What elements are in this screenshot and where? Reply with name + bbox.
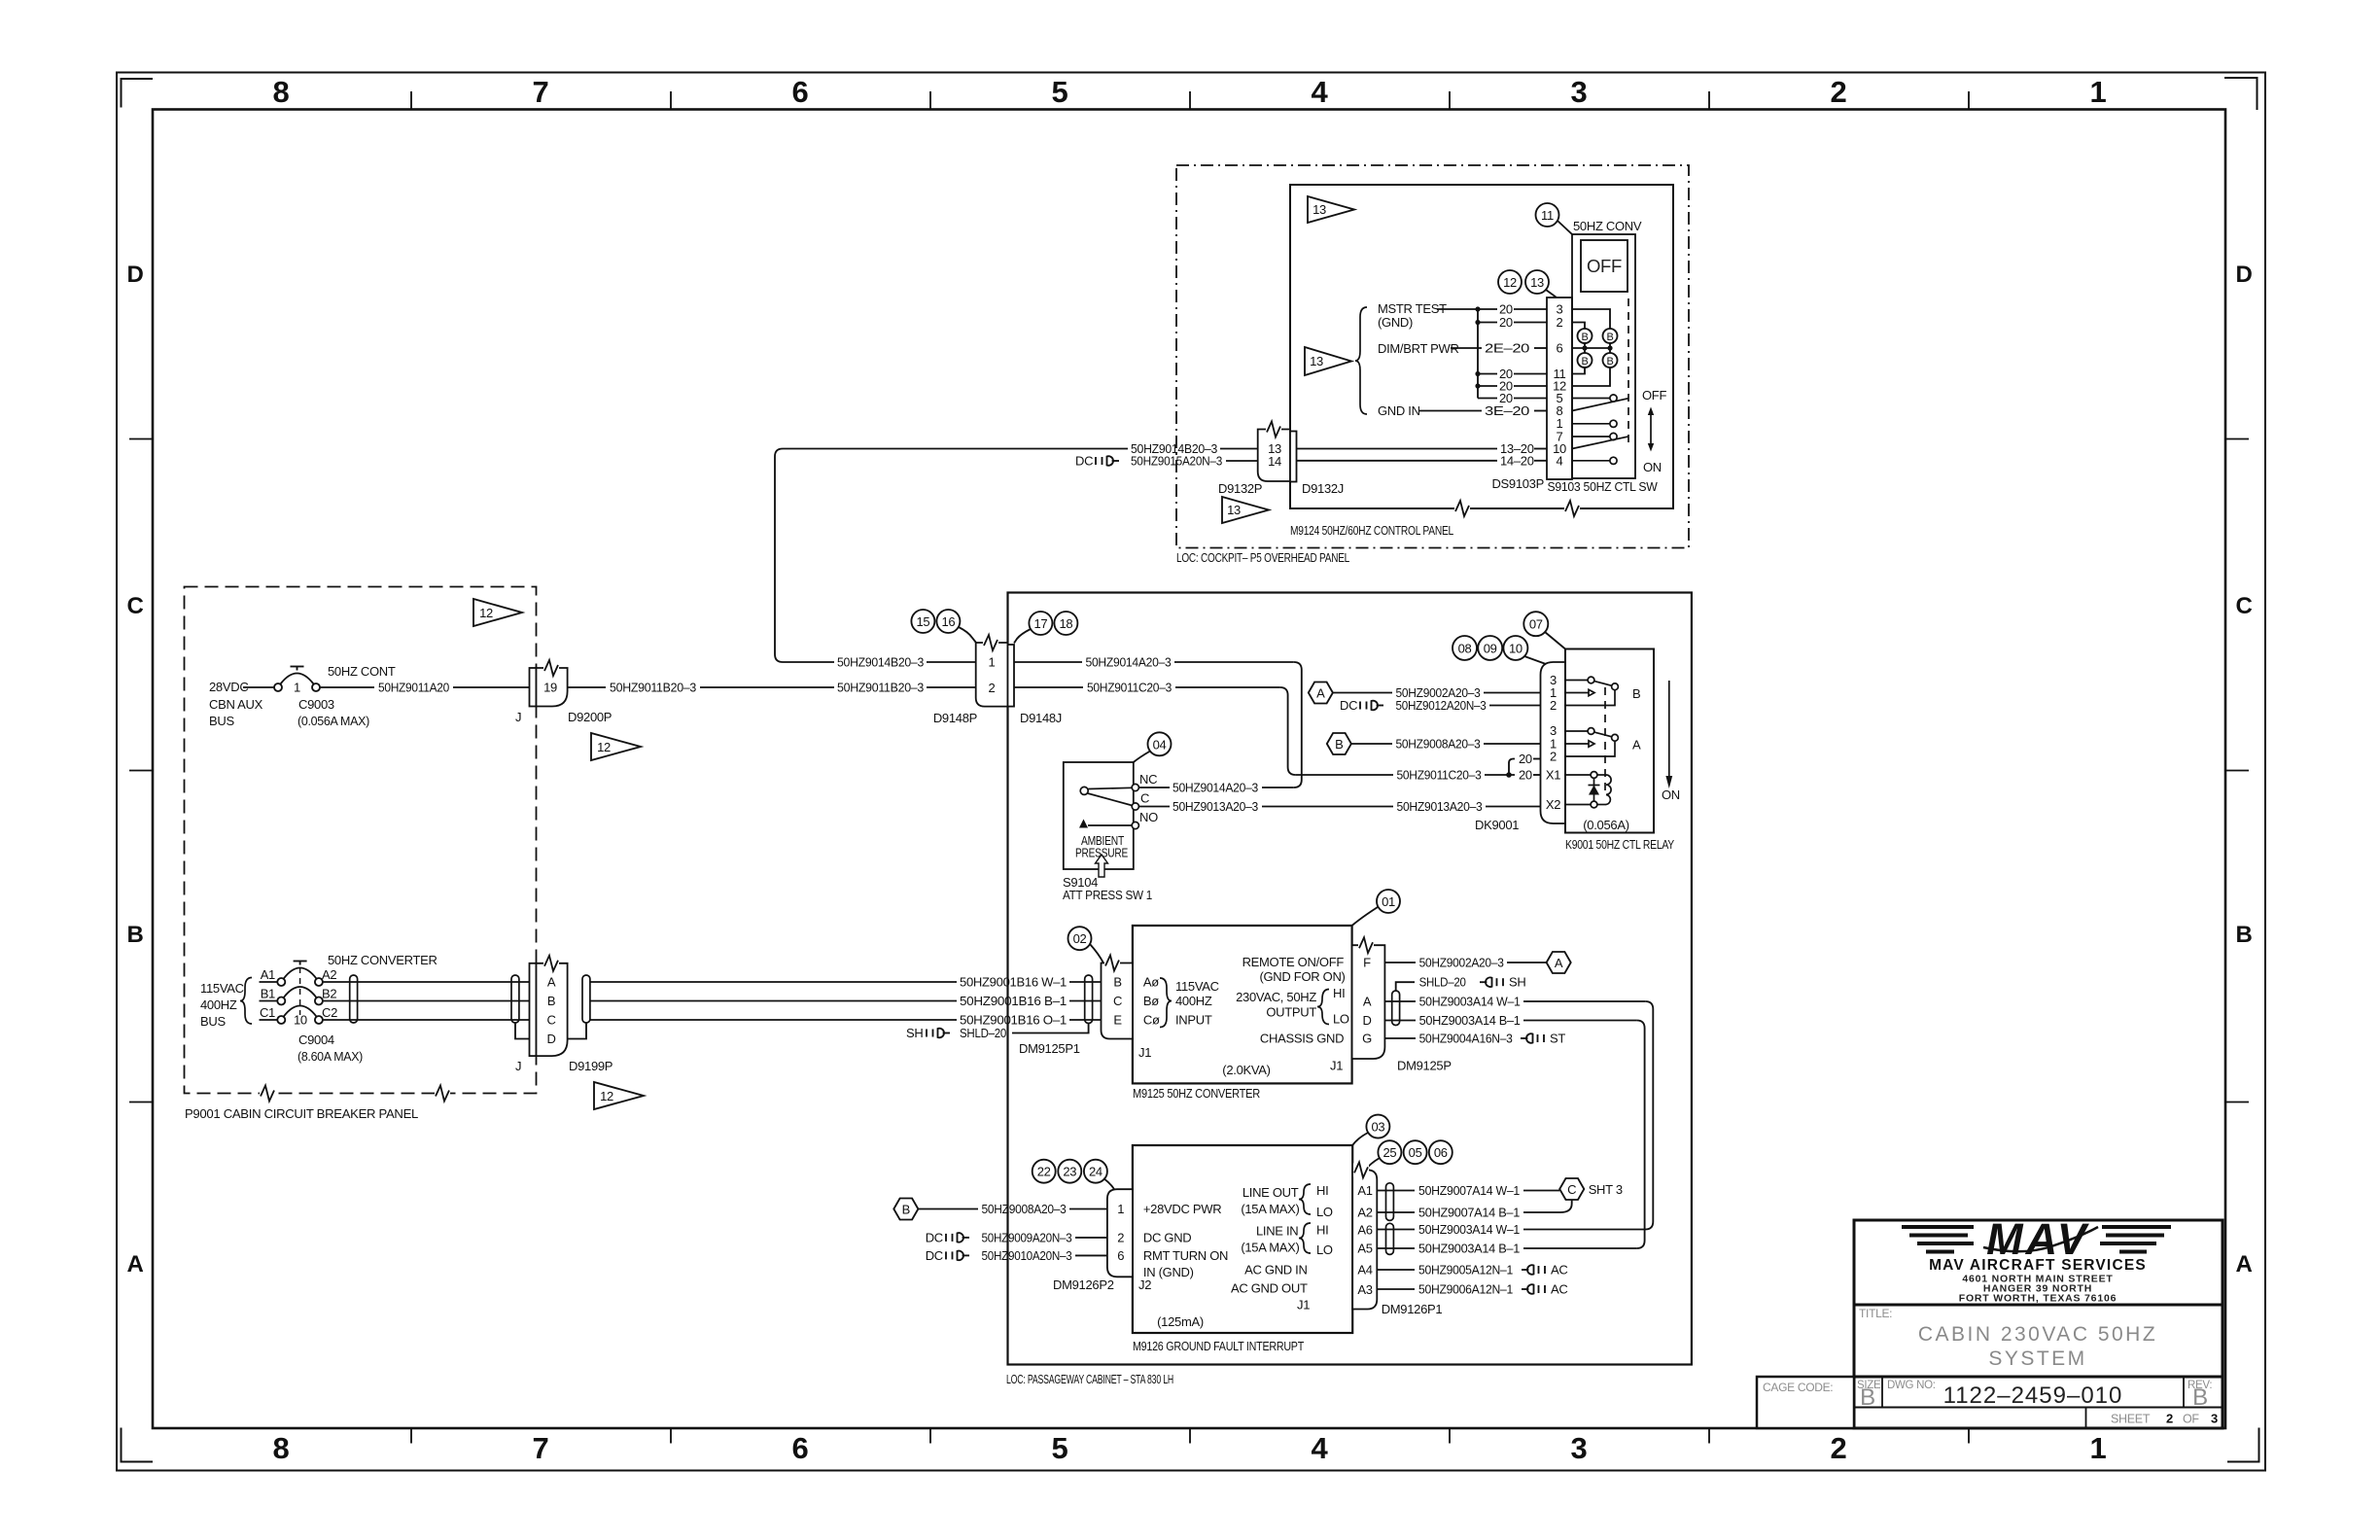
- shield oval at DM9125P output: [1392, 991, 1400, 1026]
- flag note 12 (below D9200P): [591, 733, 641, 760]
- svg-text:7: 7: [533, 1431, 549, 1465]
- hexagon flag B (at GFI): [893, 1199, 918, 1220]
- svg-text:50HZ9011B20–3: 50HZ9011B20–3: [610, 681, 696, 695]
- svg-text:DC: DC: [1340, 698, 1357, 713]
- svg-text:D9132P: D9132P: [1218, 481, 1262, 496]
- svg-text:J2: J2: [1138, 1277, 1151, 1292]
- svg-text:D9199P: D9199P: [569, 1059, 612, 1073]
- leader circles 17 18 at D9148J: [1014, 612, 1077, 644]
- svg-text:12: 12: [1503, 275, 1517, 290]
- svg-text:4: 4: [1312, 1431, 1329, 1465]
- sheet row divider: [2085, 1408, 2087, 1429]
- svg-text:B: B: [1606, 356, 1613, 367]
- connector DM9126P1 shell: [1352, 1170, 1377, 1309]
- svg-text:50HZ9012A20N–3: 50HZ9012A20N–3: [1396, 698, 1487, 713]
- svg-text:ON: ON: [1643, 460, 1662, 474]
- svg-text:(125mA): (125mA): [1157, 1314, 1204, 1329]
- svg-text:K9001 50HZ CTL RELAY: K9001 50HZ CTL RELAY: [1565, 837, 1674, 852]
- lamp B2: [1603, 329, 1618, 343]
- svg-text:50HZ9011B20–3: 50HZ9011B20–3: [837, 681, 924, 695]
- connector D9200P J side: [530, 668, 537, 707]
- svg-text:20: 20: [1499, 315, 1513, 330]
- svg-text:50HZ9003A14 B–1: 50HZ9003A14 B–1: [1419, 1013, 1521, 1028]
- junction dots on bus: [1475, 306, 1480, 388]
- DS9103P pin numbers: [1553, 302, 1566, 469]
- svg-text:(15A MAX): (15A MAX): [1241, 1202, 1299, 1216]
- S9103 switch assembly box: [1572, 234, 1635, 478]
- svg-text:B: B: [2235, 922, 2252, 948]
- wire 50HZ9009A20N-3 with DC termination (pin 2): [926, 1230, 1107, 1244]
- wire SHLD-20 with SH termination: [906, 1024, 1089, 1041]
- break mark on P9001 bottom edge (left): [260, 1086, 275, 1102]
- brace output group: [1317, 990, 1329, 1025]
- wire to pin 5 gauge 20: [1478, 391, 1547, 405]
- svg-text:OUTPUT: OUTPUT: [1266, 1005, 1316, 1020]
- svg-text:50HZ9007A14 B–1: 50HZ9007A14 B–1: [1418, 1206, 1520, 1220]
- svg-text:C: C: [1113, 994, 1122, 1008]
- wire pin 6 through lamps: [1572, 347, 1612, 349]
- svg-text:50HZ9003A14 W–1: 50HZ9003A14 W–1: [1419, 995, 1521, 1009]
- svg-text:B2: B2: [322, 987, 336, 1001]
- DM9125P1 pin letters: [1113, 975, 1122, 1028]
- svg-text:B: B: [1606, 332, 1613, 343]
- svg-text:B: B: [547, 994, 555, 1008]
- svg-text:DIM/BRT PWR: DIM/BRT PWR: [1378, 341, 1459, 356]
- DM9126P1 pin labels: [1357, 1183, 1372, 1297]
- wire pin 3 to lamp B2: [1572, 309, 1610, 329]
- svg-text:C: C: [126, 593, 143, 619]
- svg-text:A: A: [1363, 995, 1372, 1009]
- brace grouping control panel signals: [1355, 307, 1367, 414]
- svg-text:16: 16: [941, 614, 955, 629]
- svg-text:A: A: [1555, 956, 1563, 970]
- svg-text:50HZ9008A20–3: 50HZ9008A20–3: [982, 1202, 1067, 1216]
- title block main outline: [1854, 1220, 2222, 1428]
- brace for 115VAC bus: [240, 978, 252, 1025]
- svg-text:4: 4: [1557, 453, 1563, 468]
- connector DM9125P1 shell: [1102, 963, 1133, 1039]
- svg-text:J: J: [515, 710, 521, 724]
- svg-text:14–20: 14–20: [1500, 453, 1534, 468]
- M9124 control panel box: [1290, 185, 1673, 508]
- svg-text:OFF: OFF: [1642, 388, 1666, 402]
- flag note 13 (bottom, at D9132P): [1222, 497, 1269, 523]
- connector D9132P shell: [1258, 430, 1290, 482]
- DM9126P2 pin numbers: [1117, 1202, 1124, 1263]
- wire DIM/BRT PWR to pin 6 gauge 2E-20: [1451, 341, 1547, 356]
- MAV logo mark: [1902, 1214, 2171, 1264]
- svg-text:50HZ9010A20N–3: 50HZ9010A20N–3: [982, 1248, 1072, 1263]
- svg-text:6: 6: [1557, 341, 1563, 356]
- svg-text:ST: ST: [1550, 1032, 1565, 1046]
- svg-text:REMOTE ON/OFF: REMOTE ON/OFF: [1242, 955, 1345, 969]
- svg-text:230VAC, 50HZ: 230VAC, 50HZ: [1236, 990, 1316, 1004]
- svg-text:50HZ9011C20–3: 50HZ9011C20–3: [1087, 681, 1172, 695]
- svg-text:B: B: [1860, 1384, 1875, 1411]
- wire 50HZ9011A20 (C9003 to D9200P): [320, 681, 530, 695]
- svg-text:50HZ CONT: 50HZ CONT: [328, 664, 396, 679]
- shield drain from pin D (right side): [568, 1023, 586, 1039]
- wire 50HZ9007A14 B-1 (A2 to hex C): [1377, 1200, 1571, 1220]
- svg-text:AC: AC: [1551, 1282, 1567, 1297]
- svg-text:OF: OF: [2183, 1413, 2199, 1426]
- shield oval A6/A5: [1386, 1223, 1394, 1254]
- wire 13-20 (D9132J to DS9103P pin 10): [1297, 441, 1548, 456]
- panel boundary box (dashed) P9001: [185, 587, 537, 1094]
- svg-text:5: 5: [1052, 75, 1068, 109]
- wire 50HZ9002A20-3 (hex A to relay B1): [1333, 685, 1541, 700]
- svg-text:50HZ9014A20–3: 50HZ9014A20–3: [1172, 781, 1258, 795]
- svg-text:A3: A3: [1357, 1282, 1372, 1297]
- wire pin 12 to lamp B4: [1572, 367, 1610, 386]
- svg-text:DC: DC: [926, 1248, 943, 1263]
- svg-text:D9132J: D9132J: [1302, 481, 1344, 496]
- connector D9199P J side: [530, 963, 537, 1056]
- switch contact at pin 7: [1572, 433, 1617, 439]
- svg-text:M9124 50HZ/60HZ CONTROL PAN: M9124 50HZ/60HZ CONTROL PANEL: [1290, 523, 1453, 538]
- svg-text:(GND): (GND): [1378, 315, 1413, 330]
- hexagon flag B: [1327, 733, 1351, 754]
- wire 50HZ9005A12N-1 with AC termination (A4): [1377, 1263, 1567, 1277]
- svg-text:SHLD–20: SHLD–20: [1419, 975, 1466, 990]
- circuit breaker C9004 phase C: [260, 1005, 338, 1028]
- svg-text:J1: J1: [1330, 1059, 1343, 1073]
- svg-text:A4: A4: [1357, 1263, 1372, 1277]
- svg-text:2: 2: [1550, 750, 1557, 764]
- svg-text:400HZ: 400HZ: [1175, 994, 1212, 1008]
- brace line in: [1299, 1223, 1311, 1253]
- svg-text:(0.056A): (0.056A): [1583, 818, 1628, 832]
- break mark on M9124 bottom edge (left): [1454, 501, 1470, 516]
- svg-text:3E–20: 3E–20: [1485, 403, 1529, 418]
- svg-text:G: G: [1362, 1032, 1372, 1046]
- zone ticks bottom: [411, 1428, 1969, 1444]
- svg-text:J1: J1: [1138, 1045, 1151, 1060]
- svg-text:HI: HI: [1316, 1183, 1328, 1198]
- S9104 contact NO: [1132, 810, 1158, 829]
- lamp B1: [1578, 329, 1592, 343]
- converter box M9125: [1133, 926, 1352, 1083]
- svg-text:B: B: [1113, 975, 1121, 990]
- wire phase A to D9199P: [323, 981, 530, 983]
- relay contact group B: [1565, 677, 1640, 705]
- svg-text:50HZ9014A20–3: 50HZ9014A20–3: [1086, 655, 1172, 670]
- svg-text:2: 2: [1550, 698, 1557, 713]
- svg-text:C1: C1: [260, 1005, 275, 1020]
- svg-text:50HZ CONV: 50HZ CONV: [1573, 219, 1642, 233]
- svg-text:50HZ9004A16N–3: 50HZ9004A16N–3: [1419, 1032, 1513, 1046]
- svg-text:A: A: [547, 975, 556, 990]
- svg-text:1: 1: [294, 681, 300, 695]
- svg-text:50HZ9003A14 W–1: 50HZ9003A14 W–1: [1418, 1222, 1520, 1237]
- svg-text:22: 22: [1037, 1165, 1051, 1179]
- svg-text:B: B: [1632, 686, 1640, 701]
- wire SHLD-20 with SH termination (output shield): [1396, 975, 1526, 991]
- svg-text:50HZ9005A12N–1: 50HZ9005A12N–1: [1418, 1263, 1513, 1277]
- svg-text:SHLD–20: SHLD–20: [960, 1026, 1006, 1040]
- relay connector DK9001: [1541, 662, 1566, 823]
- leader circle 11: [1536, 203, 1573, 234]
- svg-text:08: 08: [1458, 642, 1472, 656]
- svg-text:20: 20: [1519, 752, 1532, 766]
- break mark on P9001 bottom edge (right): [435, 1086, 450, 1102]
- svg-text:NC: NC: [1139, 772, 1157, 787]
- svg-text:115VAC: 115VAC: [200, 981, 244, 996]
- wire to pin 11 gauge 20: [1478, 367, 1547, 381]
- svg-text:3: 3: [1571, 1431, 1588, 1465]
- svg-text:CBN AUX: CBN AUX: [209, 697, 263, 712]
- zone numbers bottom: [273, 1431, 2107, 1465]
- svg-text:E: E: [1113, 1013, 1122, 1028]
- leader circles 12 13: [1498, 270, 1557, 297]
- relay box K9001: [1565, 649, 1654, 833]
- svg-text:A1: A1: [1357, 1183, 1372, 1198]
- lamp B4: [1603, 353, 1618, 367]
- wire 50HZ9003A14 W-1 (DM9125P A to DM9126P1 A6): [1377, 995, 1653, 1238]
- svg-text:B: B: [902, 1203, 910, 1217]
- connector D9132J body: [1290, 432, 1297, 482]
- hexagon flag C with SHT 3: [1559, 1178, 1623, 1200]
- svg-text:2: 2: [1557, 315, 1563, 330]
- svg-text:05: 05: [1409, 1145, 1422, 1160]
- svg-text:A2: A2: [1357, 1206, 1372, 1220]
- svg-text:23: 23: [1063, 1165, 1076, 1179]
- svg-text:D9200P: D9200P: [568, 710, 612, 724]
- svg-text:06: 06: [1434, 1145, 1448, 1160]
- svg-text:BUS: BUS: [209, 714, 234, 728]
- svg-text:AC GND OUT: AC GND OUT: [1231, 1280, 1308, 1295]
- svg-text:C9003: C9003: [298, 697, 334, 712]
- connector DM9126P2 shell: [1107, 1189, 1133, 1277]
- svg-text:+28VDC PWR: +28VDC PWR: [1143, 1202, 1221, 1216]
- svg-text:CHASSIS GND: CHASSIS GND: [1260, 1032, 1344, 1046]
- svg-text:3: 3: [2211, 1412, 2218, 1426]
- svg-text:DC: DC: [1075, 454, 1093, 469]
- relay mechanical link (dashed): [1604, 687, 1606, 795]
- flag note 13 (top): [1308, 196, 1354, 223]
- svg-text:B: B: [2192, 1384, 2208, 1411]
- svg-text:ATT PRESS SW 1: ATT PRESS SW 1: [1063, 888, 1152, 902]
- svg-text:SH: SH: [1509, 975, 1525, 990]
- lamp B3: [1578, 353, 1592, 367]
- leader circle 01: [1352, 890, 1400, 926]
- title/number divider: [1854, 1376, 2222, 1379]
- svg-text:AC GND IN: AC GND IN: [1244, 1262, 1307, 1277]
- svg-text:50HZ9009A20N–3: 50HZ9009A20N–3: [982, 1230, 1072, 1244]
- circuit breaker C9004 phase A: [260, 962, 337, 987]
- leader circles 08 09 10: [1452, 636, 1546, 664]
- svg-text:A: A: [1316, 686, 1325, 701]
- svg-text:LINE OUT: LINE OUT: [1242, 1185, 1299, 1200]
- break mark on D9132P shell: [1266, 422, 1281, 437]
- svg-text:09: 09: [1484, 642, 1497, 656]
- location boundary box LOC: PASSAGEWAY CABINET: [1008, 593, 1692, 1365]
- wire 50HZ9011B20-3 (D9200P to D9148P pin 2): [568, 681, 976, 695]
- relay contact group A: [1565, 728, 1641, 756]
- svg-text:DM9126P2: DM9126P2: [1053, 1277, 1114, 1292]
- svg-text:B: B: [1581, 356, 1588, 367]
- switch position arrow: [1648, 407, 1654, 452]
- svg-text:8: 8: [273, 75, 290, 109]
- svg-text:J: J: [515, 1059, 521, 1073]
- shield oval A1/A2: [1386, 1183, 1394, 1221]
- svg-text:X2: X2: [1546, 797, 1560, 812]
- svg-text:LINE IN: LINE IN: [1256, 1224, 1298, 1239]
- svg-text:LO: LO: [1316, 1242, 1333, 1257]
- wire 50HZ9013A20-3 (S9104 C to relay X2): [1139, 799, 1541, 814]
- svg-text:DC GND: DC GND: [1143, 1230, 1191, 1244]
- switch contact at pin 4: [1572, 457, 1617, 464]
- svg-text:04: 04: [1153, 737, 1167, 752]
- wire 50HZ9001B16 W-1 (D9199P A to DM9125P1 B): [590, 975, 1102, 990]
- svg-text:SHT 3: SHT 3: [1589, 1182, 1623, 1197]
- svg-text:NO: NO: [1139, 810, 1158, 824]
- break mark on DM9125P shell: [1358, 937, 1374, 953]
- svg-text:6: 6: [792, 1431, 809, 1465]
- svg-text:17: 17: [1033, 616, 1047, 631]
- svg-text:DWG NO:: DWG NO:: [1887, 1380, 1936, 1391]
- relay ON arrow: [1665, 681, 1672, 788]
- svg-text:50HZ9001B16 W–1: 50HZ9001B16 W–1: [960, 975, 1067, 990]
- hexagon flag A: [1309, 682, 1333, 704]
- wire 50HZ9001B16 O-1 (D9199P C to DM9125P1 E): [590, 1013, 1102, 1028]
- wire 50HZ9002A20-3 (F to hex A): [1384, 956, 1546, 970]
- wire 50HZ9007A14 W-1 (A1 to hex C): [1377, 1183, 1559, 1198]
- logo/title divider: [1854, 1304, 2222, 1307]
- svg-text:D: D: [126, 262, 143, 288]
- svg-text:RMT TURN ON: RMT TURN ON: [1143, 1248, 1228, 1263]
- wire pin 2 to lamp B1: [1572, 323, 1585, 330]
- svg-text:50HZ CONVERTER: 50HZ CONVERTER: [328, 953, 437, 967]
- svg-text:C: C: [546, 1013, 555, 1028]
- svg-text:24: 24: [1089, 1165, 1102, 1179]
- corner bracket top-right: [2224, 78, 2257, 110]
- svg-text:20: 20: [1519, 768, 1532, 783]
- svg-text:J1: J1: [1297, 1298, 1310, 1312]
- circuit breaker C9004 phase B: [260, 987, 337, 1005]
- svg-text:50HZ9007A14 W–1: 50HZ9007A14 W–1: [1418, 1183, 1520, 1198]
- svg-text:6: 6: [792, 75, 809, 109]
- svg-text:DM9125P: DM9125P: [1397, 1059, 1452, 1073]
- wire 50HZ9014B20-3 (D9132P to trunk): [783, 441, 1258, 456]
- svg-text:C9004: C9004: [298, 1032, 334, 1047]
- connector D9200P shell: [537, 668, 568, 707]
- wire GND IN to pin 8 gauge 3E-20: [1419, 403, 1547, 418]
- zone letters left: [126, 262, 143, 1277]
- wire 14-20 (D9132J to DS9103P pin 4): [1297, 453, 1548, 468]
- svg-text:B: B: [126, 922, 143, 948]
- C9004 trip tie (dashed): [299, 967, 301, 1015]
- svg-text:50HZ9002A20–3: 50HZ9002A20–3: [1419, 956, 1504, 970]
- svg-text:12: 12: [479, 606, 493, 620]
- svg-text:SYSTEM: SYSTEM: [1988, 1347, 2086, 1370]
- wire 50HZ9004A16N-3 with ST termination (chassis gnd): [1384, 1032, 1565, 1046]
- S9104 pivot and blade: [1080, 787, 1132, 805]
- svg-text:A1: A1: [261, 967, 275, 982]
- svg-text:13: 13: [1310, 354, 1323, 368]
- DK9001 pin labels: [1546, 673, 1560, 812]
- break mark on D9199P shell: [543, 956, 559, 971]
- svg-text:B: B: [1581, 332, 1588, 343]
- break mark on M9124 bottom edge (right): [1564, 501, 1580, 516]
- svg-text:12: 12: [597, 740, 611, 754]
- switch blade from pin 8: [1572, 399, 1628, 411]
- svg-text:S9103 50HZ CTL SW: S9103 50HZ CTL SW: [1548, 479, 1659, 494]
- svg-text:MSTR TEST: MSTR TEST: [1378, 301, 1447, 316]
- wire to pin 2 with gauge 20: [1478, 315, 1547, 330]
- shield oval after D9199P: [582, 975, 590, 1023]
- svg-text:8: 8: [273, 1431, 290, 1465]
- wire trunk 50HZ9014B20-3 down to D9148P: [775, 449, 834, 663]
- leader circle 07: [1523, 612, 1565, 648]
- svg-text:TITLE:: TITLE:: [1859, 1307, 1892, 1320]
- svg-text:A: A: [2235, 1251, 2252, 1277]
- svg-text:2: 2: [1831, 1431, 1847, 1465]
- svg-text:IN (GND): IN (GND): [1143, 1265, 1194, 1279]
- svg-text:07: 07: [1529, 617, 1543, 632]
- svg-text:03: 03: [1371, 1120, 1384, 1135]
- svg-text:LOC: PASSAGEWAY CABINET –: LOC: PASSAGEWAY CABINET – STA 830 LH: [1006, 1372, 1173, 1386]
- svg-text:DM9126P1: DM9126P1: [1382, 1302, 1443, 1316]
- svg-text:19: 19: [543, 681, 557, 695]
- wire 50HZ9011C20-3 (D9148J pin 2 to relay X1 and A2): [1014, 681, 1541, 783]
- zone ticks right: [2225, 439, 2249, 1102]
- DM9125P pin letters: [1362, 956, 1372, 1046]
- size box divider: [1881, 1377, 1883, 1408]
- svg-text:2: 2: [989, 681, 996, 695]
- svg-text:(GND FOR ON): (GND FOR ON): [1259, 969, 1345, 984]
- svg-text:4: 4: [1312, 75, 1329, 109]
- inner border: [153, 110, 2225, 1429]
- svg-text:18: 18: [1059, 616, 1072, 631]
- wire 50HZ9008A20-3 (hex B to relay A1): [1351, 737, 1541, 752]
- wire phase B to D9199P: [323, 1000, 530, 1002]
- corner bracket bottom-right: [2227, 1428, 2259, 1462]
- svg-text:Bø: Bø: [1143, 994, 1159, 1008]
- connector D9148J body: [1008, 645, 1015, 707]
- cage code box: [1757, 1377, 1854, 1428]
- svg-text:02: 02: [1073, 931, 1087, 946]
- svg-text:D: D: [546, 1032, 555, 1046]
- switch blade from pin 10: [1572, 437, 1628, 448]
- svg-text:50HZ9011A20: 50HZ9011A20: [378, 681, 449, 695]
- break mark on DM9126P1 shell: [1353, 1162, 1369, 1177]
- svg-text:SHEET: SHEET: [2111, 1413, 2151, 1426]
- svg-text:DS9103P: DS9103P: [1491, 476, 1544, 491]
- svg-text:C: C: [1140, 791, 1149, 806]
- wire 50HZ9003A14 B-1 (DM9125P D to DM9126P1 A5): [1377, 1013, 1644, 1256]
- svg-text:50HZ9001B16 B–1: 50HZ9001B16 B–1: [960, 994, 1067, 1008]
- rev box divider: [2183, 1377, 2185, 1408]
- svg-text:50HZ9015A20N–3: 50HZ9015A20N–3: [1131, 454, 1222, 469]
- svg-text:115VAC: 115VAC: [1175, 979, 1219, 994]
- bus line joining pins 3,2,11,12,5: [1477, 309, 1479, 399]
- zone letters right: [2235, 262, 2252, 1277]
- svg-text:A6: A6: [1357, 1223, 1372, 1238]
- svg-text:BUS: BUS: [200, 1014, 226, 1029]
- relay coil and suppression diode: [1565, 772, 1611, 808]
- svg-text:7: 7: [533, 75, 549, 109]
- svg-text:13: 13: [1530, 275, 1544, 290]
- svg-text:1: 1: [1117, 1202, 1124, 1216]
- svg-text:C2: C2: [322, 1005, 337, 1020]
- svg-text:A2: A2: [322, 967, 336, 982]
- wire 50HZ9014B20-3 label into D9148P pin 1: [837, 655, 976, 670]
- svg-text:INPUT: INPUT: [1175, 1013, 1212, 1028]
- shield oval at C9004: [350, 975, 358, 1023]
- svg-text:P9001 CABIN CIRCUIT BREAKER: P9001 CABIN CIRCUIT BREAKER PANEL: [185, 1106, 418, 1121]
- svg-text:CAGE CODE:: CAGE CODE:: [1763, 1381, 1833, 1394]
